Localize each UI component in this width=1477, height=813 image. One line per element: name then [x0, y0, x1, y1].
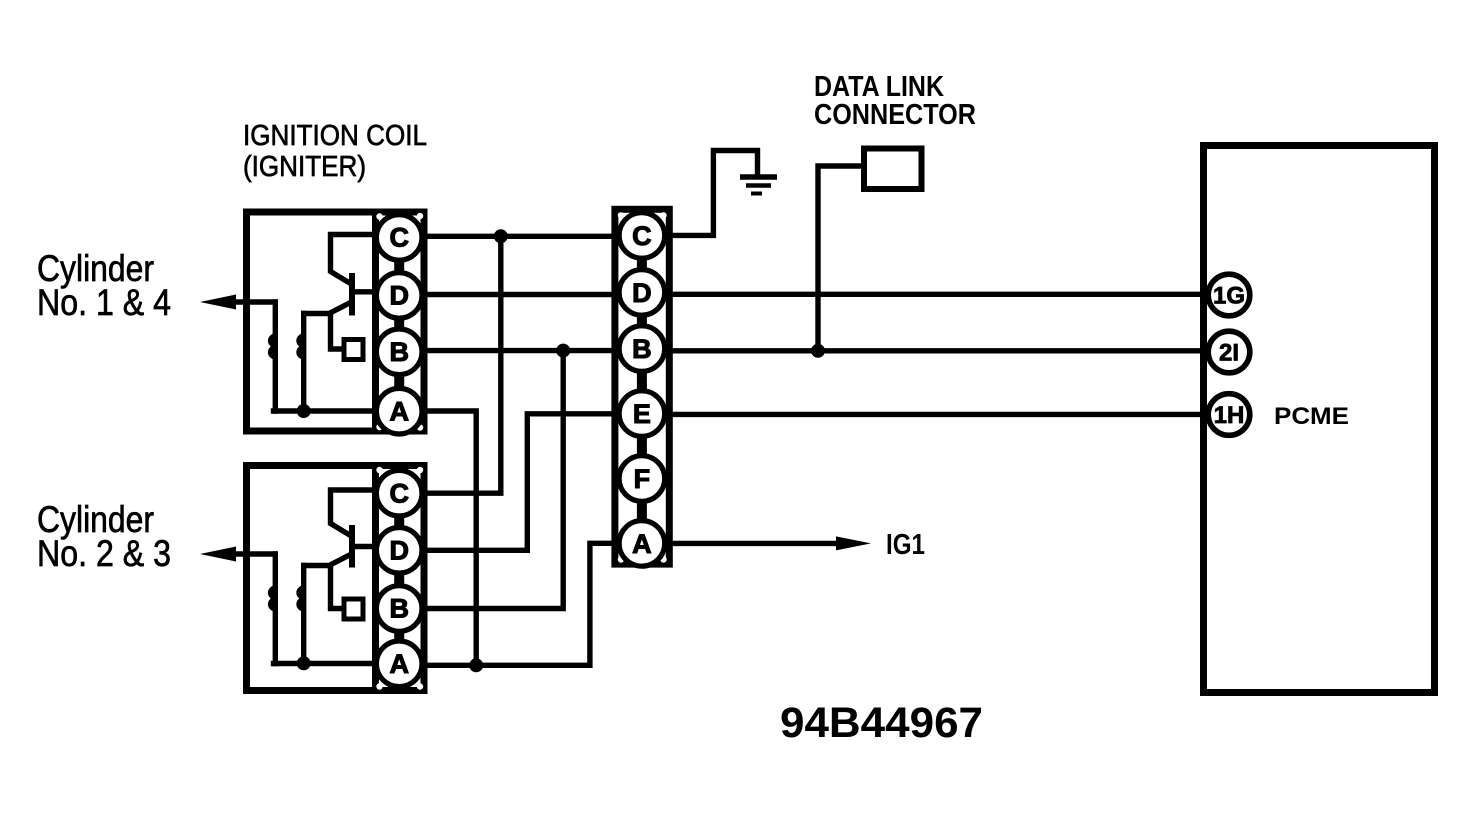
svg-text:E: E [633, 399, 651, 429]
svg-text:D: D [632, 278, 652, 308]
arrow to Cylinder No. 2 & 3 [200, 547, 275, 562]
PCME pin 1G [1208, 274, 1250, 316]
svg-text:No. 1 & 4: No. 1 & 4 [37, 282, 171, 323]
wire net B: U1-B to middle B with branch down to U2-B [425, 348, 615, 353]
wire: DLC drop [818, 166, 861, 351]
label: Cylinder No. 2 & 3 [37, 499, 171, 574]
igniter U2 internals: base stub to pin D [353, 544, 374, 549]
label: IGNITION COIL (IGNITER) [243, 120, 427, 183]
igniter U2 pin C [376, 470, 422, 516]
middle strip pin D [619, 270, 665, 316]
igniter U2 internals: collector wire to pin C [331, 490, 375, 536]
svg-text:1G: 1G [1213, 283, 1245, 310]
igniter U1 pin A [376, 388, 422, 434]
igniter U2 connector strip [376, 466, 425, 691]
igniter U1 pin C [376, 215, 422, 261]
wire: middle E to PCME 1H [669, 412, 1207, 417]
igniter U2 internals: primary coil L3 [270, 554, 276, 664]
svg-text:B: B [389, 594, 409, 624]
wire: middle B to PCME 2I [669, 348, 1207, 353]
igniter U2 internals: junction [297, 656, 311, 670]
label: DATA LINK CONNECTOR [814, 71, 976, 131]
igniter U1 internals: junction [297, 404, 311, 418]
middle strip pin E [619, 391, 665, 437]
igniter U1 pin D [376, 273, 422, 319]
svg-text:CONNECTOR: CONNECTOR [814, 99, 976, 131]
svg-text:94B44967: 94B44967 [780, 699, 983, 747]
svg-text:No. 2 & 3: No. 2 & 3 [37, 533, 171, 574]
igniter U1 connector strip [376, 212, 425, 431]
middle strip pin C [619, 213, 665, 259]
wire: middle D to PCME 1G [669, 292, 1207, 297]
svg-text:C: C [389, 223, 409, 253]
igniter U1 internals: wire to resistor R1 [331, 315, 343, 349]
svg-text:IG1: IG1 [886, 529, 925, 561]
arrow to Cylinder No. 1 & 4 [200, 295, 275, 310]
igniter U1 internals: collector wire to pin C [331, 235, 375, 284]
svg-text:B: B [389, 337, 409, 367]
middle strip pin B [619, 326, 665, 372]
data link connector box [864, 149, 922, 190]
igniter U1 internals: base stub to pin D [353, 289, 374, 294]
wire: middle C to ground [669, 151, 758, 236]
svg-text:C: C [632, 221, 652, 251]
junction net A [469, 658, 483, 672]
svg-text:PCME: PCME [1274, 403, 1349, 430]
igniter U1 pin B [376, 329, 422, 375]
wire net A: U1-A and U2-A to middle A [425, 411, 476, 665]
wire net C: U1-C to middle C with branch down to U2-C [425, 234, 615, 239]
igniter U2 internals: transistor Q2 bar [349, 525, 355, 568]
svg-text:2I: 2I [1219, 340, 1239, 367]
middle strip pin A [619, 521, 665, 567]
svg-text:IGNITION COIL: IGNITION COIL [243, 120, 427, 152]
igniter U2 pin B [376, 586, 422, 632]
svg-text:C: C [389, 478, 409, 508]
middle strip pin F [619, 456, 665, 502]
igniter U1 internals: resistor R1 (square) [344, 340, 363, 360]
igniter U2 internals: resistor R2 (square) [344, 599, 363, 619]
ground symbol [740, 177, 777, 194]
svg-text:D: D [389, 535, 409, 565]
PCME pin 1H [1208, 394, 1250, 436]
igniter U1 internals: transistor Q1 bar [349, 273, 355, 316]
middle connector strip [615, 209, 669, 564]
igniter U2 internals: bottom wire to pin A [274, 661, 375, 666]
igniter U2 internals: wire to resistor R2 [331, 567, 343, 609]
wire net E: U2-D up to middle E [425, 414, 615, 551]
svg-text:1H: 1H [1214, 402, 1245, 429]
svg-text:A: A [632, 529, 652, 559]
junction: DLC tap on 2I wire [811, 344, 825, 358]
svg-text:(IGNITER): (IGNITER) [243, 151, 366, 183]
igniter U1 internals: emitter wire [304, 303, 351, 314]
svg-text:B: B [632, 334, 652, 364]
igniter U1 internals: bottom wire to pin A [274, 408, 375, 413]
svg-text:F: F [634, 464, 651, 494]
PCME box [1204, 146, 1435, 693]
PCME pin 2I [1208, 331, 1250, 373]
igniter U1 internals: primary coil L1 [270, 302, 276, 411]
igniter U1 box (Cylinder No.1&4) [247, 212, 424, 431]
igniter U2 internals: secondary coil L4 [298, 566, 304, 664]
igniter U2 pin D [376, 528, 422, 574]
junction net B [556, 344, 570, 358]
junction net C [494, 229, 508, 243]
igniter U2 internals: emitter wire [304, 555, 351, 566]
arrow IG1 [836, 536, 871, 550]
label: Cylinder No. 1 & 4 [37, 248, 171, 323]
igniter U1 internals: secondary coil L2 [298, 314, 304, 412]
svg-text:A: A [389, 396, 409, 426]
igniter U2 pin A [376, 641, 422, 687]
wire: middle A to IG1 [669, 541, 840, 546]
svg-text:D: D [389, 281, 409, 311]
igniter U2 box (Cylinder No.2&3) [247, 466, 424, 691]
svg-text:A: A [389, 649, 409, 679]
wire net D: U1-D to middle D [425, 292, 615, 297]
